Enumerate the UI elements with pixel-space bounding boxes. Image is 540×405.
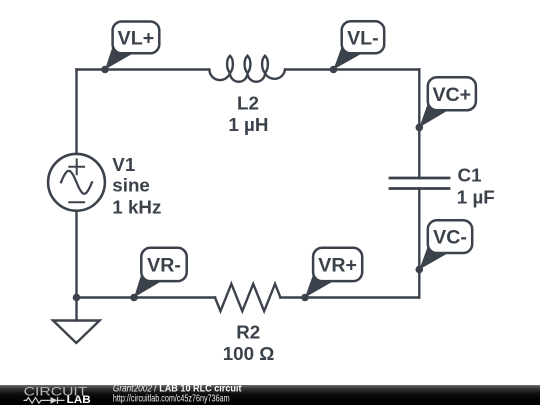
svg-text:L2: L2: [237, 92, 259, 113]
inductor L2 coil: [209, 56, 285, 82]
flag VC+: [419, 77, 476, 127]
node dot VL-: [330, 66, 338, 74]
svg-text:VL-: VL-: [347, 27, 379, 49]
svg-text:VC+: VC+: [432, 84, 471, 106]
flag VL-: [334, 21, 385, 69]
svg-text:VL+: VL+: [118, 28, 154, 50]
node dot VC-: [416, 266, 424, 274]
wire right vertical lower: [418, 189, 420, 298]
ground triangle: [53, 321, 100, 344]
svg-text:V1: V1: [112, 154, 135, 175]
logo waveform zigzag and diode: [24, 397, 65, 404]
svg-text:VC-: VC-: [433, 227, 467, 249]
node dot VR+: [301, 294, 309, 302]
source V1 sine wave: [61, 171, 92, 194]
svg-text:1 µH: 1 µH: [228, 114, 268, 135]
svg-text:http://circuitlab.com/c45z76ny: http://circuitlab.com/c45z76ny736am: [113, 393, 230, 404]
ground stem: [75, 298, 77, 321]
resistor R2 zigzag: [215, 284, 280, 311]
svg-text:VR+: VR+: [318, 255, 357, 277]
svg-text:C1: C1: [458, 165, 482, 186]
svg-text:1 kHz: 1 kHz: [112, 197, 161, 218]
node dot VR-: [130, 294, 138, 302]
source V1 circle: [48, 154, 105, 211]
svg-text:1 µF: 1 µF: [457, 186, 495, 207]
flag VL+: [105, 22, 159, 70]
capacitor C1 bottom plate: [390, 187, 449, 190]
svg-text:100 Ω: 100 Ω: [223, 343, 275, 364]
wire top-right horizontal: [285, 68, 419, 70]
wire bottom-left horizontal: [77, 296, 216, 298]
node dot VL+: [101, 66, 109, 74]
wire left vertical upper: [75, 70, 77, 154]
source V1 minus sign: [69, 201, 84, 203]
svg-text:R2: R2: [236, 322, 260, 343]
svg-text:sine: sine: [112, 175, 150, 196]
flag VR+: [305, 248, 362, 298]
flag VC-: [419, 220, 472, 269]
capacitor C1 top plate: [390, 177, 449, 180]
node dot VC+: [416, 124, 424, 132]
svg-text:VR-: VR-: [147, 255, 181, 277]
wire top-left horizontal: [77, 68, 210, 70]
wire left vertical lower: [75, 211, 77, 298]
flag VR-: [134, 248, 187, 298]
svg-text:LAB: LAB: [67, 394, 91, 405]
source V1 plus sign: [69, 159, 84, 174]
wire bottom-right horizontal: [280, 296, 419, 298]
wire right vertical upper: [418, 70, 420, 179]
node dot ground junction: [73, 294, 81, 302]
